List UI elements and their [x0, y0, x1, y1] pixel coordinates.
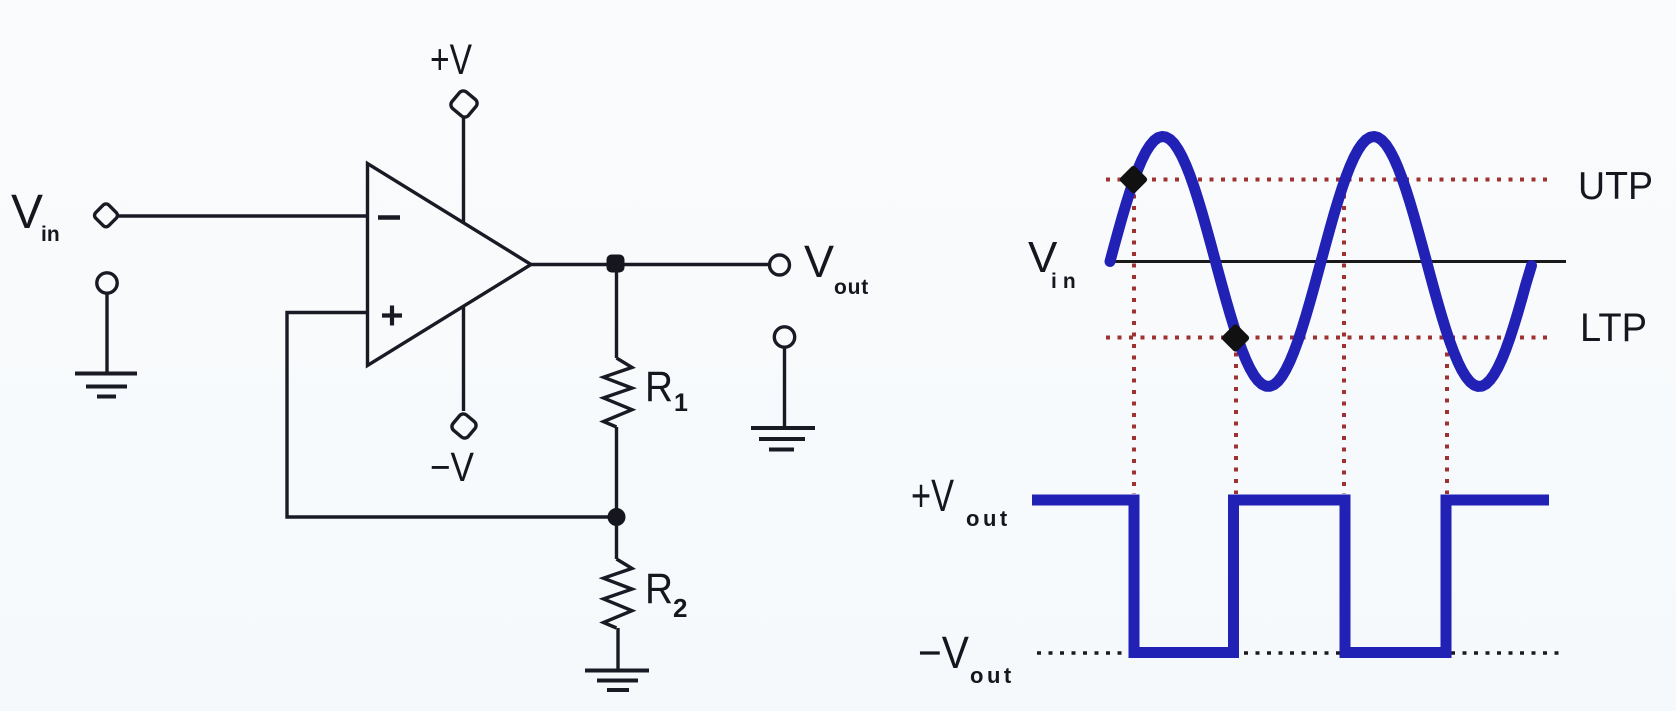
terminal output ground circle: [774, 327, 794, 347]
wire junction to R2: [615, 524, 618, 559]
terminal +V (diamond): [449, 89, 479, 119]
node LTP threshold dotted line: [1106, 336, 1548, 340]
svg-text:1: 1: [674, 389, 688, 417]
wire trigger line t3: [1342, 183, 1346, 494]
wire plus input: [287, 313, 608, 518]
terminal Vin (diamond): [93, 202, 119, 228]
node trigger marker M1 (diamond): [1119, 165, 1149, 195]
node Vin label: [11, 186, 60, 246]
wire output: [531, 263, 770, 266]
svg-text:+V: +V: [430, 36, 472, 84]
svg-text:2: 2: [673, 593, 687, 623]
terminal Vout circle: [770, 255, 790, 275]
svg-text:out: out: [966, 506, 1011, 531]
op-amp U1: [368, 164, 532, 366]
wire +V supply to op-amp: [462, 118, 465, 222]
svg-text:R: R: [645, 363, 673, 411]
wire Vout square waveform: [1032, 500, 1549, 653]
svg-text:in: in: [41, 223, 60, 246]
wire R1 to junction: [615, 427, 618, 512]
node trigger marker M2 (diamond): [1221, 323, 1251, 353]
wire Vin to inverting input: [118, 214, 367, 217]
terminal ground reference circle: [97, 273, 117, 293]
op-amp minus pin symbol: [378, 215, 400, 219]
ground GND2: [585, 671, 649, 691]
svg-text:in: in: [1051, 270, 1082, 293]
svg-text:V: V: [804, 236, 834, 287]
wire output node to R1: [615, 270, 618, 358]
resistor R2: [604, 559, 633, 628]
resistor R1 label: [645, 363, 688, 417]
svg-text:V: V: [11, 186, 43, 239]
svg-text:−V: −V: [430, 444, 475, 490]
junction feedback node dot: [608, 508, 626, 526]
node -Vout dotted level line: [1037, 651, 1559, 655]
wire time axis: [1113, 260, 1566, 263]
wire trigger line t2: [1234, 341, 1238, 494]
wire op-amp to -V supply: [462, 306, 465, 411]
wire trigger line t1: [1132, 183, 1136, 494]
wire terminal to ground: [783, 348, 786, 427]
resistor R1: [604, 358, 633, 427]
wire R2 to ground: [616, 628, 619, 669]
svg-text:LTP: LTP: [1580, 306, 1647, 350]
wire trigger line t4: [1445, 341, 1449, 494]
node Vout label: [804, 236, 869, 299]
wire Vin sine waveform: [1110, 137, 1532, 387]
svg-text:out: out: [834, 276, 869, 299]
junction output node dot: [607, 255, 625, 273]
svg-text:R: R: [645, 565, 673, 613]
svg-text:−V: −V: [918, 627, 969, 678]
ground GND3: [751, 428, 815, 450]
ground GND1: [75, 374, 137, 397]
wire terminal to ground: [105, 294, 108, 373]
resistor R2 label: [645, 565, 687, 623]
svg-text:out: out: [970, 663, 1015, 688]
node UTP threshold dotted line: [1106, 178, 1548, 182]
node -Vout label: [918, 627, 1015, 688]
terminal -V (diamond): [450, 412, 478, 440]
svg-text:UTP: UTP: [1578, 165, 1653, 208]
node Vin axis label: [1028, 233, 1082, 293]
node +Vout label: [911, 470, 1011, 531]
svg-text:+V: +V: [911, 470, 954, 521]
op-amp plus pin symbol: [382, 306, 402, 326]
